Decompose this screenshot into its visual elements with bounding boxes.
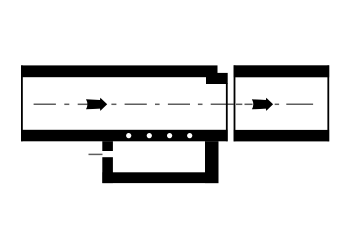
right pipe top wall: [234, 65, 330, 77]
chamber right wall: [205, 141, 219, 183]
perforation hole 1: [126, 133, 131, 138]
chamber inlet slot centerline: [89, 153, 103, 155]
right pipe left wall: [234, 65, 236, 141]
centerline right pipe (dash-dot): [236, 103, 313, 105]
chamber left wall lower segment: [102, 157, 113, 183]
perforation hole 3: [167, 133, 172, 138]
chamber bottom wall: [102, 172, 218, 183]
perforation hole 2: [147, 133, 152, 138]
right pipe right wall: [327, 65, 329, 141]
left pipe left wall: [21, 65, 23, 141]
right pipe bottom wall: [234, 130, 330, 142]
centerline left pipe (dash-dot): [34, 103, 234, 105]
left pipe right wall: [226, 83, 228, 141]
left pipe bottom wall (perforated): [21, 130, 228, 142]
flow arrow 2 (right pipe): [252, 98, 273, 111]
perforation hole 4: [187, 133, 192, 138]
left pipe top wall: [21, 65, 218, 77]
left pipe end lip (step): [206, 73, 228, 84]
flow arrow 1 (left pipe): [86, 98, 107, 111]
chamber left wall upper segment: [102, 141, 113, 151]
